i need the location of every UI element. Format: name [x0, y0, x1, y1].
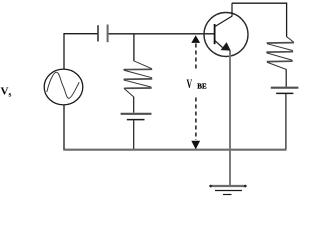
svg-text:V: V — [186, 77, 192, 92]
svg-text:BE: BE — [197, 82, 207, 90]
